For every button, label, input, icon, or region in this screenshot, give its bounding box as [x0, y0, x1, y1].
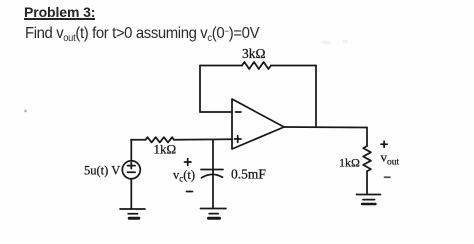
- capacitor C1 top plate: [201, 169, 223, 171]
- resistor R2 1k load vertical zigzag: [363, 146, 371, 171]
- source V1 bottom stub: [130, 179, 132, 209]
- wire R2 to ground: [366, 171, 368, 194]
- svg-text:1kΩ: 1kΩ: [154, 142, 177, 157]
- svg-text:0.5mF: 0.5mF: [231, 167, 266, 182]
- wire feedback left vertical: [199, 66, 201, 113]
- capacitor C1 curved plate: [202, 174, 223, 177]
- source V1 minus sign: [128, 171, 136, 173]
- source V1 top stub: [130, 140, 132, 161]
- vout minus sign: [385, 176, 391, 178]
- wire from R1 to op-amp plus: [174, 138, 232, 141]
- capacitor minus sign: [187, 191, 193, 193]
- wire output corner down: [366, 128, 368, 147]
- vout plus sign: [381, 141, 387, 147]
- ground G1 under source: [120, 209, 145, 218]
- wire feedback right vertical: [315, 66, 317, 128]
- op-amp minus sign: [236, 111, 242, 113]
- title line "Problem 3:": [24, 4, 95, 20]
- faint smudge: [321, 41, 331, 45]
- wire feedback top-left segment: [200, 65, 242, 67]
- title underline: [24, 18, 95, 20]
- svg-text:1kΩ: 1kΩ: [339, 156, 360, 170]
- wire inverting input: [200, 111, 232, 113]
- svg-text:5u(t) V: 5u(t) V: [84, 164, 120, 178]
- faint smudge 2: [342, 40, 348, 44]
- source V1 circle: [122, 161, 140, 179]
- ground G2 under capacitor: [201, 209, 227, 219]
- op-amp U1 triangle: [232, 99, 284, 149]
- wire op-amp output: [284, 126, 367, 129]
- stray mark dot: [24, 110, 27, 113]
- resistor R1 1k input zigzag: [146, 137, 175, 142]
- svg-text:vout: vout: [381, 150, 400, 168]
- wire feedback top-right segment: [271, 65, 316, 67]
- wire noninverting input horizontal: [131, 139, 146, 141]
- capacitor plus sign: [185, 159, 192, 165]
- svg-text:3kΩ: 3kΩ: [242, 46, 266, 61]
- op-amp plus sign: [235, 136, 242, 142]
- wire capacitor branch vertical: [212, 140, 214, 208]
- problem statement line: [25, 25, 259, 44]
- source V1 plus sign: [128, 162, 136, 168]
- resistor R-feedback 3k zigzag: [242, 62, 271, 69]
- svg-text:vc(t): vc(t): [173, 168, 195, 184]
- ground G3 under load: [357, 195, 381, 205]
